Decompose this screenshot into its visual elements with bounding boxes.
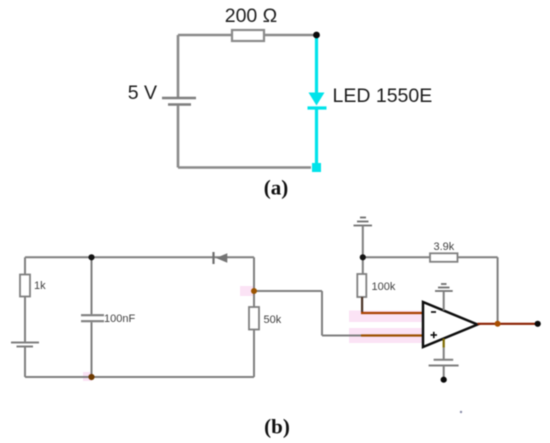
wire left upper (a) bbox=[177, 35, 180, 97]
wire bottom (b) bbox=[25, 376, 254, 378]
capacitor C1 plate top bbox=[81, 314, 104, 316]
node D junction 50k (orange) bbox=[251, 288, 257, 294]
wire battery V3 lower bbox=[443, 367, 445, 378]
wire capacitor lower bbox=[91, 322, 93, 377]
wire top-left (a) bbox=[178, 34, 232, 37]
diode D2 cathode bar bbox=[212, 252, 214, 264]
capacitor C1 plate bottom bbox=[81, 320, 104, 322]
glow at node 50k bbox=[240, 286, 254, 296]
wire node D to plus branch horizontal bbox=[254, 290, 322, 292]
wire top (b) bbox=[25, 256, 254, 258]
wire plus branch horizontal gray bbox=[322, 335, 361, 337]
wire capacitor upper bbox=[91, 257, 93, 314]
wire LED cathode (cyan) bbox=[315, 108, 318, 163]
svg-text:100nF: 100nF bbox=[104, 313, 135, 325]
ground G1 top bbox=[354, 218, 373, 226]
svg-text:3.9k: 3.9k bbox=[434, 241, 455, 253]
LED D1 1550E triangle bbox=[309, 93, 325, 106]
ground G2 above op-amp bbox=[435, 284, 453, 291]
battery V1 5V plate long bbox=[162, 97, 196, 100]
battery V3 plate long bbox=[429, 365, 459, 367]
resistor R2 1k bbox=[20, 275, 30, 297]
wire top-right (a) bbox=[264, 34, 316, 37]
op-amp U1 triangle bbox=[423, 302, 478, 347]
node B junction top (black) bbox=[88, 254, 94, 260]
wire left lower (a) bbox=[177, 106, 180, 168]
battery V1 5V plate short bbox=[168, 103, 191, 106]
wire bottom (a) bbox=[178, 166, 311, 169]
wire plus input (dark red) bbox=[361, 334, 423, 336]
diode D2 triangle bbox=[216, 253, 227, 263]
svg-text:(b): (b) bbox=[264, 415, 290, 439]
terminal square (cyan) bbox=[312, 163, 321, 172]
wire 3.9k to feedback corner bbox=[458, 256, 498, 258]
battery V2 plate short bbox=[17, 346, 34, 348]
wire left middle (b) bbox=[24, 297, 26, 342]
glow at bottom node bbox=[83, 372, 92, 381]
wire minus input (dark red) bbox=[361, 312, 423, 314]
resistor R5 100k bbox=[357, 274, 366, 297]
wire node E to 100k bbox=[362, 257, 364, 274]
wire 100k lower (dark) bbox=[361, 297, 363, 313]
svg-text:(a): (a) bbox=[264, 176, 289, 200]
terminal node V- (black) bbox=[441, 377, 447, 383]
wire node E to 3.9k bbox=[363, 256, 430, 258]
glow minus input bbox=[349, 311, 423, 323]
wire 50k upper bbox=[253, 291, 255, 307]
wire output (dark red) bbox=[478, 323, 538, 325]
node F output junction (orange) bbox=[495, 321, 501, 327]
wire left upper (b) bbox=[24, 257, 26, 274]
svg-text:5 V: 5 V bbox=[128, 82, 157, 104]
svg-text:200 Ω: 200 Ω bbox=[225, 5, 278, 27]
wire 50k lower bbox=[253, 330, 255, 378]
resistor R4 3.9k bbox=[430, 253, 458, 261]
wire ground G2 to op-amp V+ bbox=[443, 291, 445, 311]
stray dot artifact bbox=[460, 411, 462, 413]
node E junction (black) bbox=[360, 254, 366, 260]
node C junction bottom (brown) bbox=[88, 374, 94, 380]
op-amp minus sign bbox=[431, 311, 436, 313]
glow plus input bbox=[349, 328, 423, 343]
svg-text:50k: 50k bbox=[264, 314, 282, 326]
resistor R1 200 ohm bbox=[232, 30, 264, 41]
svg-text:1k: 1k bbox=[34, 280, 46, 292]
wire LED anode (cyan) bbox=[315, 37, 318, 93]
svg-text:100k: 100k bbox=[372, 281, 396, 293]
op-amp plus sign bbox=[431, 332, 438, 338]
wire op-amp V- stub (olive) bbox=[443, 339, 445, 348]
wire ground G1 to node E bbox=[362, 226, 364, 258]
wire V- stub gray bbox=[443, 348, 445, 359]
battery V2 plate long bbox=[11, 342, 39, 344]
wire right vertical upper (b) bbox=[253, 257, 255, 291]
svg-text:LED 1550E: LED 1550E bbox=[333, 85, 433, 107]
resistor R3 50k bbox=[249, 307, 259, 330]
terminal node output (black) bbox=[535, 321, 541, 327]
battery V3 plate short bbox=[434, 359, 454, 361]
wire left lower (b) bbox=[24, 348, 26, 378]
node A top-right junction bbox=[313, 32, 320, 39]
LED D1 cathode bar bbox=[308, 106, 327, 109]
wire feedback vertical bbox=[497, 257, 499, 324]
wire plus branch vertical bbox=[321, 291, 323, 336]
